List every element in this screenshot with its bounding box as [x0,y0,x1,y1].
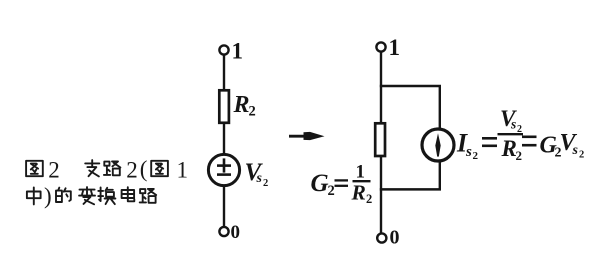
svg-text:s: s [256,171,263,186]
wire Vs2 to node 0 [223,186,225,227]
svg-text:2: 2 [263,178,268,189]
node 0 (right circuit bottom terminal) [377,227,399,249]
svg-text:R: R [233,92,250,118]
svg-text:2: 2 [366,192,372,206]
resistor R2 [219,90,229,123]
node 0 (left branch bottom terminal) [219,222,240,243]
wire top rail to current source [439,86,441,130]
svg-text:2: 2 [328,183,335,199]
wire R2 to Vs2 [223,123,225,155]
wire node1 to R2 [223,55,225,91]
wire top rail [380,85,441,88]
current source Is2 [422,129,454,161]
node 1 (left branch top terminal) [219,39,243,64]
svg-text:s: s [510,117,516,132]
label Vs2 [245,159,269,189]
svg-text:1: 1 [389,35,401,60]
label Is2 = Vs2/R2 = G2 Vs2 [456,106,584,163]
resistor G2 [375,123,385,156]
label R2 [233,92,256,120]
svg-text:2: 2 [473,150,479,162]
svg-text:s: s [572,143,579,158]
wire bottom rail [380,188,441,191]
svg-text:0: 0 [390,227,400,249]
label G2 = 1/R2 [311,162,373,207]
svg-text:2: 2 [126,157,138,182]
svg-text:1: 1 [232,39,244,64]
arrow (transformation) [289,132,325,140]
wire G2 to bottom rail and node 0 [380,156,382,234]
svg-text:(: ( [140,157,148,182]
svg-text:2: 2 [249,104,256,120]
svg-text:2: 2 [48,157,60,182]
svg-text:R: R [501,136,517,161]
caption line 2: 中)的 变换电路 [27,183,156,208]
svg-text:0: 0 [231,222,241,243]
svg-text:R: R [351,180,366,204]
svg-text:G: G [311,170,329,197]
svg-text:2: 2 [516,148,523,163]
wire node1 down through top junction to G2 [380,52,382,124]
voltage source Vs2 [208,154,239,185]
wire current source to bottom rail [439,161,441,191]
svg-text:1: 1 [177,157,189,182]
node 1 (right circuit top terminal) [376,35,400,60]
svg-text:s: s [465,144,472,160]
svg-text:): ) [44,183,52,208]
svg-text:2: 2 [579,150,584,161]
caption line 1: 图 2 支路 2(图 1 [26,157,188,183]
